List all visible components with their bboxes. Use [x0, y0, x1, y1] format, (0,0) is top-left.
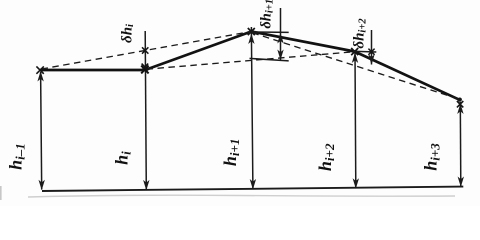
node mark point i-1 [36, 66, 43, 73]
delta-h_i+2 level line at point height [353, 50, 376, 53]
baseline (datum line) [42, 187, 463, 191]
delta-h_i+2 measure line [371, 30, 373, 65]
delta-h_i+1 up arrowhead [277, 33, 283, 44]
dashed chord h_i to h_i+2 [147, 52, 354, 69]
ordinate h_i+2 bottom arrowhead [353, 178, 359, 189]
faint scan streak below baseline [28, 195, 455, 197]
ordinate h_i-1 bottom arrowhead [39, 180, 45, 191]
delta-h_i+2 down arrowhead [368, 54, 374, 65]
ordinate h_i-1 top arrowhead [37, 71, 43, 82]
dashed chord h_i+1 to h_i+3 [252, 33, 458, 99]
ordinate h_i dimension line (extends up as delta-h_i extension) [145, 31, 146, 190]
delta-h_i+1 level line at peak height [249, 31, 289, 33]
ordinate h_i+2 dimension line [354, 53, 357, 188]
ordinate h_i bottom arrowhead [143, 180, 149, 191]
dashed chord h_i-1 to h_i+1 [42, 32, 251, 69]
ordinate h_i-1 dimension line [41, 72, 42, 190]
faint scan smudge left edge [0, 186, 2, 200]
ordinate h_i+2 top arrowhead [352, 53, 358, 64]
node mark point i+2 [351, 48, 358, 55]
ordinate h_i+1 top arrowhead [248, 34, 254, 45]
ordinate h_i+3 top arrowhead [457, 104, 463, 115]
node mark point i [141, 66, 148, 74]
delta-h_i+2 cross arrow at level line [368, 49, 374, 55]
delta-h_i+1 down arrowhead [277, 50, 283, 61]
delta-h_i cross arrow at point [142, 64, 149, 71]
node mark point i+3 [458, 98, 462, 102]
ordinate h_i+1 bottom arrowhead [250, 179, 256, 190]
node mark point i+1 [248, 28, 255, 35]
profile polyline (solid) [40, 32, 460, 100]
delta-h_i+1 measure line [280, 8, 282, 60]
ordinate h_i+3 bottom arrowhead [458, 177, 464, 188]
ordinate h_i+1 dimension line [251, 27, 253, 189]
delta-h_i cross arrow at chord crossing [142, 47, 148, 53]
delta-h_i+1 lower tick at chord height [250, 58, 289, 61]
ordinate h_i+3 dimension line [459, 102, 462, 187]
